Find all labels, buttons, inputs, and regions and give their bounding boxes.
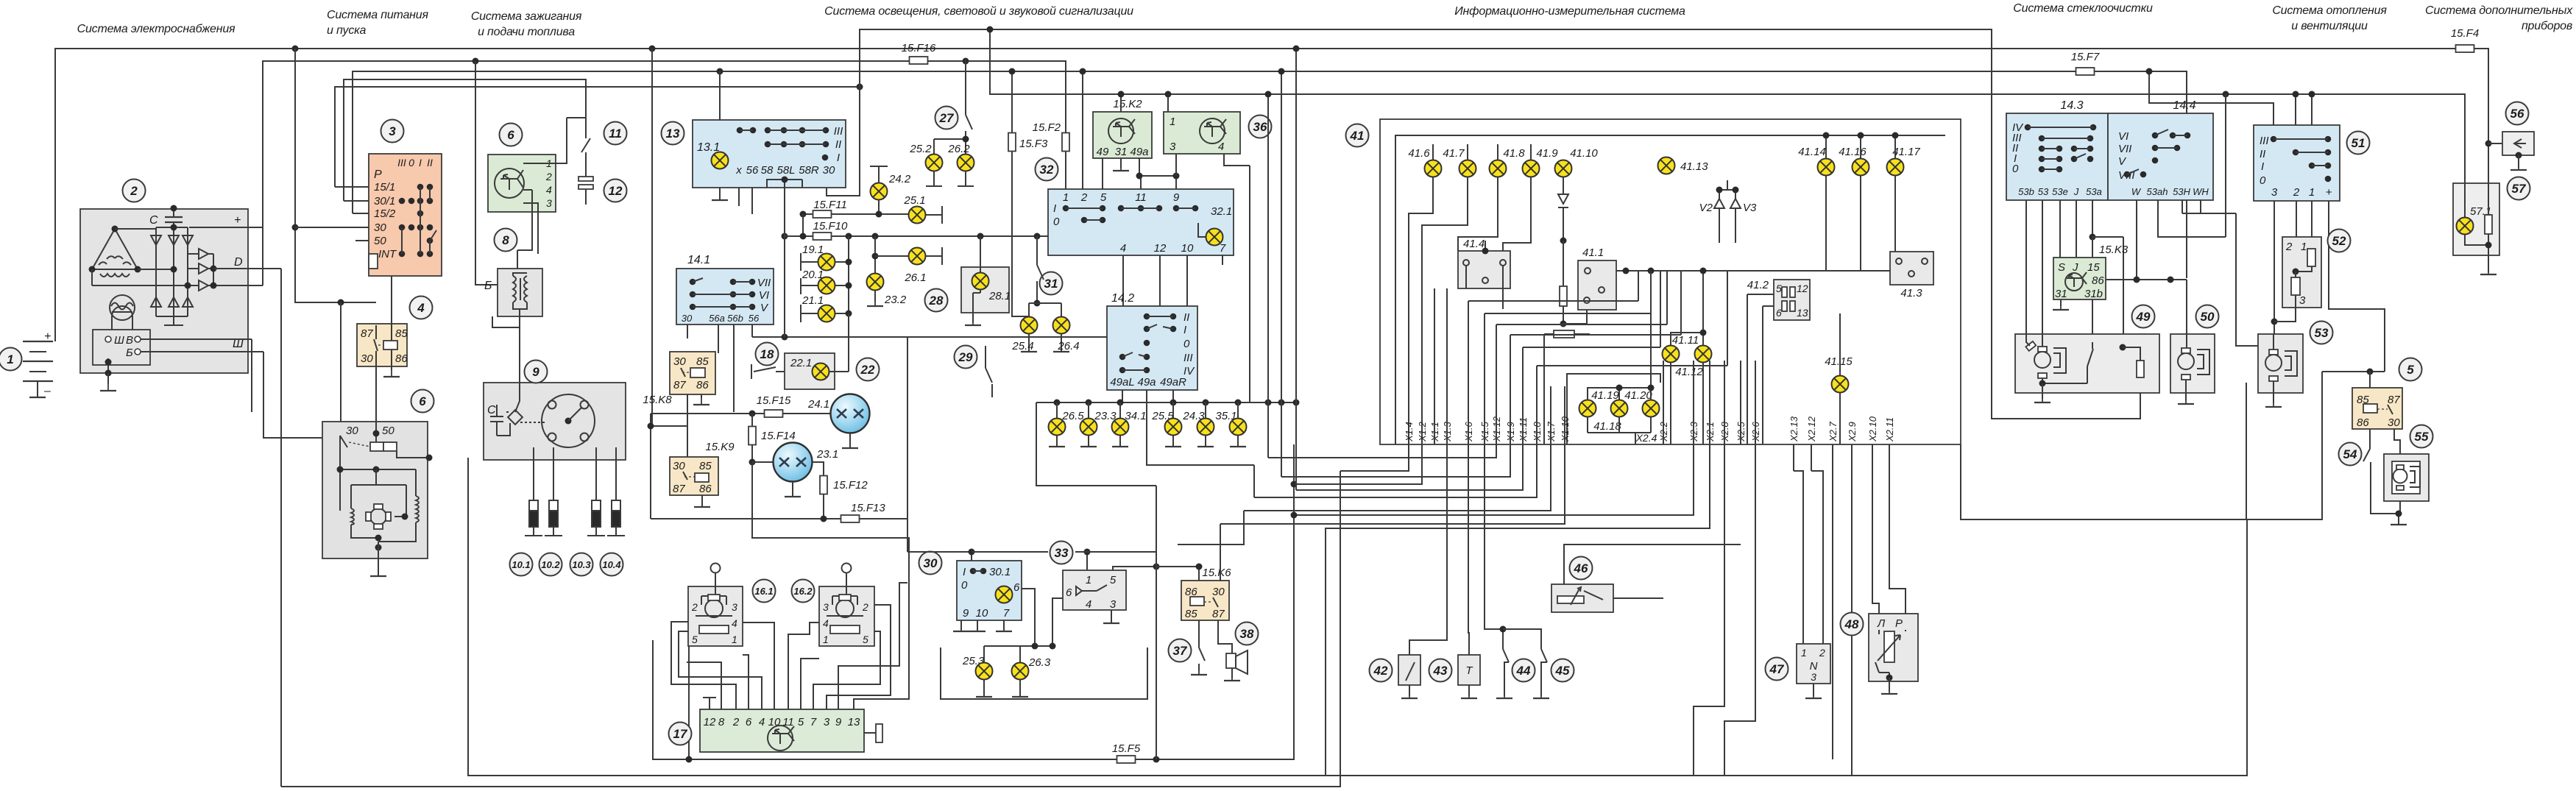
interior light block 30: [957, 561, 1022, 620]
wire bus H5 y118: [335, 87, 860, 187]
svg-text:56b: 56b: [727, 313, 743, 324]
svg-text:30: 30: [682, 313, 693, 324]
light switch block 13: [693, 120, 846, 188]
svg-text:I: I: [837, 152, 840, 164]
svg-text:53e: 53e: [2052, 186, 2068, 197]
svg-text:56: 56: [746, 164, 759, 177]
svg-text:3: 3: [824, 716, 830, 728]
fuse 15.F4: [2456, 45, 2474, 52]
svg-text:10.1: 10.1: [512, 559, 530, 570]
svg-text:41.19: 41.19: [1591, 389, 1619, 402]
svg-text:X2.13: X2.13: [1788, 416, 1800, 442]
svg-text:87: 87: [673, 483, 685, 495]
svg-text:25.1: 25.1: [903, 194, 925, 207]
svg-text:30: 30: [823, 164, 835, 177]
ignition coil 8: [498, 269, 542, 316]
relay 15.K9: [670, 457, 718, 495]
dimmer block 17: [700, 709, 864, 752]
svg-text:2: 2: [862, 601, 868, 613]
diode under 41.10: [1558, 177, 1568, 241]
svg-text:приборов: приборов: [2522, 20, 2572, 32]
svg-text:6: 6: [507, 128, 514, 142]
svg-text:12: 12: [1797, 283, 1808, 294]
svg-text:x: x: [735, 164, 742, 177]
wire bus H3 y97: [353, 71, 2187, 278]
block 41.3: [1890, 252, 1933, 285]
svg-text:29: 29: [958, 350, 973, 364]
dimmer rheostat 48: [1869, 614, 1918, 681]
svg-text:15/1: 15/1: [374, 181, 395, 194]
svg-text:1: 1: [1801, 647, 1807, 659]
wiper relay 15.K3: [2053, 258, 2106, 299]
svg-text:26.5: 26.5: [1061, 410, 1084, 422]
svg-text:49aL: 49aL: [1110, 376, 1134, 389]
svg-text:1: 1: [1170, 116, 1175, 128]
wire bus H6 y128: [990, 29, 2465, 183]
svg-text:14.4: 14.4: [2173, 99, 2195, 112]
svg-text:0: 0: [1053, 216, 1060, 228]
switches 44 45: [1512, 659, 1535, 682]
block 41.2: [1774, 280, 1810, 320]
svg-text:31b: 31b: [2084, 288, 2103, 300]
turn relay block 14.2: [1107, 306, 1197, 390]
svg-text:50: 50: [382, 425, 394, 437]
svg-text:38: 38: [1240, 627, 1254, 641]
ignition module block (circle 6 label): [488, 155, 556, 212]
svg-text:V3: V3: [1743, 202, 1757, 214]
svg-text:WH: WH: [2193, 186, 2209, 197]
svg-text:16.1: 16.1: [754, 586, 773, 597]
svg-text:30/1: 30/1: [374, 195, 395, 207]
washer switch block 14.4: [2108, 113, 2213, 200]
svg-text:6: 6: [1013, 581, 1020, 594]
svg-text:56: 56: [749, 313, 760, 324]
svg-text:6: 6: [1776, 307, 1782, 319]
svg-text:41.16: 41.16: [1839, 146, 1866, 158]
svg-text:28: 28: [929, 294, 944, 308]
svg-text:41: 41: [1350, 129, 1365, 143]
wiper motor block 49: [2015, 334, 2159, 393]
wire vert 401 to ign.switch 30 and relay 4: [295, 49, 376, 302]
svg-text:24.1: 24.1: [807, 398, 829, 411]
svg-text:13: 13: [848, 716, 860, 728]
svg-text:30: 30: [346, 425, 358, 437]
svg-text:II: II: [1183, 311, 1189, 324]
svg-text:Ш: Ш: [114, 334, 124, 347]
svg-text:56: 56: [2510, 107, 2524, 121]
stator delta winding: [92, 229, 138, 277]
svg-text:86: 86: [2092, 274, 2104, 287]
svg-text:P: P: [374, 169, 382, 181]
svg-text:11: 11: [1135, 191, 1147, 204]
regulator wires out: [108, 339, 248, 373]
circle 1: [0, 348, 22, 371]
X1 connector labels: [1404, 416, 1895, 442]
svg-text:41.6: 41.6: [1408, 147, 1430, 160]
svg-text:0: 0: [2012, 163, 2019, 175]
svg-text:30: 30: [673, 355, 686, 368]
svg-text:и пуска: и пуска: [327, 24, 367, 37]
marker lamps 19.1 20.1 21.1: [848, 236, 849, 313]
svg-text:3: 3: [2299, 294, 2306, 307]
bottom bus yB3 1072: [281, 471, 1340, 787]
svg-text:26.4: 26.4: [1057, 340, 1079, 352]
svg-text:53H: 53H: [2173, 186, 2190, 197]
svg-text:X1.2: X1.2: [1417, 421, 1428, 442]
svg-text:42: 42: [1373, 664, 1388, 678]
svg-text:I: I: [963, 566, 966, 578]
generator block 2: [80, 209, 248, 373]
staircase harness under lamps: [1409, 177, 1433, 444]
svg-text:55: 55: [2415, 430, 2429, 444]
svg-text:Система питания: Система питания: [327, 9, 428, 21]
wires 16.x to 17: [703, 698, 716, 709]
svg-text:49a: 49a: [1130, 146, 1148, 158]
svg-text:51: 51: [2352, 136, 2366, 150]
diode bridge: [92, 227, 263, 325]
relay 15.K2: [1093, 112, 1152, 158]
svg-text:32.1: 32.1: [1211, 205, 1232, 218]
svg-text:9: 9: [963, 607, 969, 620]
svg-text:6: 6: [419, 394, 426, 408]
fuse 15.F16: [910, 57, 928, 64]
svg-text:3: 3: [1170, 141, 1176, 153]
svg-text:15.F15: 15.F15: [757, 394, 791, 407]
svg-text:15.F12: 15.F12: [833, 479, 868, 492]
svg-text:1: 1: [732, 634, 737, 645]
svg-text:43: 43: [1433, 664, 1448, 678]
svg-text:41.8: 41.8: [1503, 147, 1525, 160]
svg-text:15.F7: 15.F7: [2071, 51, 2100, 63]
svg-text:57: 57: [2512, 182, 2527, 196]
relay 4: [357, 324, 407, 366]
headlight 23.1: [752, 461, 773, 463]
svg-text:0: 0: [408, 157, 414, 169]
svg-text:23.3: 23.3: [1094, 410, 1117, 422]
svg-text:VI: VI: [759, 289, 769, 302]
bottom bus yB1 1032 with fuse 15.F5: [653, 640, 1117, 759]
svg-text:41.18: 41.18: [1593, 420, 1621, 433]
svg-text:0: 0: [2260, 174, 2266, 187]
svg-text:30: 30: [924, 556, 938, 570]
wire H1 tail to aux: [2474, 49, 2488, 183]
switch 11 and capacitor 12: [604, 122, 627, 145]
svg-text:15.K6: 15.K6: [1202, 567, 1231, 579]
wire bus H0 y40: [860, 29, 2140, 419]
svg-text:15: 15: [2087, 261, 2100, 274]
block 41.1: [1578, 260, 1616, 310]
svg-text:III: III: [1183, 352, 1193, 364]
svg-text:1: 1: [7, 352, 13, 366]
svg-text:85: 85: [699, 460, 712, 472]
svg-text:–: –: [43, 385, 51, 397]
svg-text:13: 13: [1797, 307, 1808, 319]
circle 57: [2508, 177, 2530, 200]
svg-text:3: 3: [1110, 598, 1117, 611]
svg-text:4: 4: [546, 184, 552, 196]
svg-text:10.4: 10.4: [602, 559, 621, 570]
svg-text:0: 0: [961, 579, 968, 592]
svg-text:53a: 53a: [2086, 186, 2102, 197]
svg-text:1: 1: [2301, 241, 2307, 253]
svg-text:I: I: [1053, 202, 1056, 215]
svg-text:4: 4: [1218, 141, 1224, 153]
svg-text:2: 2: [2293, 186, 2300, 199]
svg-text:41.15: 41.15: [1825, 355, 1853, 368]
svg-text:53: 53: [2038, 186, 2049, 197]
svg-text:18: 18: [760, 347, 774, 361]
svg-text:24.2: 24.2: [888, 173, 911, 185]
svg-text:49aR: 49aR: [1160, 376, 1186, 389]
svg-text:87: 87: [361, 327, 373, 340]
svg-text:41.12: 41.12: [1675, 366, 1703, 378]
svg-text:W: W: [2131, 186, 2142, 197]
svg-text:41.2: 41.2: [1747, 279, 1769, 291]
svg-text:13: 13: [666, 127, 680, 141]
svg-text:34.1: 34.1: [1125, 410, 1146, 422]
lamp 26.1 and 23.2: [874, 236, 876, 273]
svg-text:8: 8: [718, 716, 725, 728]
svg-text:4: 4: [732, 617, 737, 629]
svg-text:X2.12: X2.12: [1806, 416, 1817, 442]
svg-text:4: 4: [759, 716, 765, 728]
svg-text:3: 3: [546, 197, 552, 209]
svg-text:15.K2: 15.K2: [1113, 98, 1142, 110]
svg-text:Б: Б: [126, 347, 133, 359]
wire vert 886 to relay K9: [652, 49, 687, 457]
bus y368: [1616, 270, 1890, 272]
capacitor C in 2: [149, 205, 183, 232]
wire vert 978 lamp13.1 feed: [719, 71, 721, 120]
svg-text:+: +: [234, 214, 241, 227]
svg-text:53ah: 53ah: [2147, 186, 2168, 197]
X2 harness routes: [1294, 444, 1694, 515]
lamp 25.1: [909, 207, 926, 224]
svg-text:15.F4: 15.F4: [2451, 27, 2479, 40]
svg-text:49: 49: [2136, 310, 2151, 324]
svg-text:J: J: [2072, 261, 2078, 274]
turn lamps bus: [1036, 402, 1296, 403]
svg-text:15.F14: 15.F14: [761, 430, 796, 442]
svg-text:+: +: [2326, 186, 2332, 199]
svg-text:58: 58: [761, 164, 774, 177]
svg-text:41.7: 41.7: [1443, 147, 1465, 160]
svg-text:58L: 58L: [776, 164, 795, 177]
svg-text:85: 85: [696, 355, 709, 368]
svg-text:10: 10: [976, 607, 988, 620]
washer motor block 50: [2170, 334, 2215, 393]
svg-text:2: 2: [691, 601, 698, 613]
circle 2: [123, 180, 146, 202]
svg-text:41.4: 41.4: [1463, 238, 1485, 250]
instrument cluster box 41: [1380, 119, 1961, 444]
svg-text:56a: 56a: [709, 313, 725, 324]
svg-text:5: 5: [798, 716, 804, 728]
svg-text:86: 86: [696, 379, 709, 391]
svg-text:33: 33: [1055, 546, 1069, 560]
X1 column stubs: [1434, 288, 1447, 444]
svg-text:8: 8: [502, 233, 509, 247]
svg-text:3: 3: [823, 601, 829, 613]
harness below box 41: [1268, 94, 1496, 458]
heater switch block 51: [2254, 125, 2340, 201]
svg-text:3: 3: [389, 124, 396, 138]
svg-text:86: 86: [699, 483, 712, 495]
svg-text:4: 4: [417, 301, 425, 315]
svg-text:Л: Л: [1877, 617, 1886, 630]
junction dots on buses: [292, 46, 299, 52]
svg-text:I: I: [419, 157, 422, 169]
wire bus H4 y108: [344, 79, 586, 201]
svg-text:86: 86: [395, 352, 408, 365]
fuse 15.F11 row: [803, 213, 908, 215]
svg-text:Система отопления: Система отопления: [2272, 4, 2387, 17]
lamp 24.2: [870, 166, 888, 183]
svg-text:3: 3: [2271, 186, 2278, 199]
cigarette lighter block 57.1: [2453, 183, 2499, 255]
bottom bus yB2 1054: [468, 458, 2247, 776]
svg-text:1: 1: [1063, 191, 1069, 204]
svg-text:37: 37: [1173, 644, 1188, 658]
gen outputs to right: [213, 269, 281, 352]
svg-text:9: 9: [835, 716, 842, 728]
svg-text:1: 1: [2309, 186, 2315, 199]
spark plug wires: [534, 447, 616, 500]
svg-text:36: 36: [1253, 120, 1267, 134]
starter motor: [370, 508, 386, 525]
bus y705 with fuse 15.F13: [651, 518, 841, 519]
svg-text:31: 31: [2055, 288, 2067, 300]
svg-text:41.11: 41.11: [1672, 334, 1699, 347]
svg-text:15.F3: 15.F3: [1019, 138, 1048, 150]
lamp 41.13: [1658, 157, 1675, 174]
svg-text:2: 2: [2285, 241, 2293, 253]
svg-text:X2.7: X2.7: [1827, 421, 1839, 442]
svg-text:15.F11: 15.F11: [813, 199, 847, 211]
svg-text:50: 50: [374, 235, 386, 247]
compressor switch 54: [2339, 443, 2362, 466]
svg-text:VI: VI: [2118, 130, 2129, 143]
svg-text:87: 87: [1212, 608, 1225, 620]
svg-text:86: 86: [2357, 416, 2369, 429]
svg-text:25.2: 25.2: [909, 143, 932, 155]
fuse 15.F7: [2076, 68, 2095, 75]
horn 38: [1236, 622, 1259, 645]
svg-text:52: 52: [2332, 234, 2346, 248]
svg-text:87: 87: [673, 379, 686, 391]
svg-text:16.2: 16.2: [793, 586, 813, 597]
svg-text:C: C: [149, 214, 158, 227]
svg-text:53: 53: [2315, 326, 2329, 340]
svg-text:2: 2: [130, 184, 138, 198]
svg-text:VII: VII: [2118, 143, 2131, 155]
svg-text:9: 9: [532, 365, 539, 379]
svg-text:85: 85: [1185, 608, 1197, 620]
svg-text:Р: Р: [1895, 617, 1903, 630]
svg-text:30: 30: [1212, 586, 1225, 598]
svg-text:50: 50: [2201, 310, 2215, 324]
rotor field winding: [110, 295, 135, 320]
svg-text:10.3: 10.3: [572, 559, 591, 570]
svg-text:41.13: 41.13: [1680, 160, 1708, 173]
hazard switch block 32: [1048, 189, 1234, 255]
svg-text:30: 30: [361, 352, 373, 365]
svg-text:41.14: 41.14: [1798, 146, 1826, 158]
svg-text:5: 5: [1110, 574, 1117, 586]
svg-text:Система электроснабжения: Система электроснабжения: [77, 23, 236, 35]
AC relay 5: [2322, 371, 2385, 372]
svg-text:2: 2: [732, 716, 740, 728]
resistor block 52: [2282, 237, 2321, 308]
svg-text:Информационно-измерительная си: Информационно-измерительная система: [1454, 5, 1685, 18]
wire bus H2 y83: [263, 61, 1066, 285]
svg-text:C: C: [487, 404, 496, 416]
battery 1: [23, 330, 53, 397]
svg-text:15.F2: 15.F2: [1033, 121, 1061, 134]
svg-text:27: 27: [939, 111, 955, 125]
spark plugs 10.1-10.4: [525, 500, 625, 536]
sensor 42: [1398, 655, 1420, 685]
circles 28 29: [925, 289, 948, 312]
switch 27: [935, 107, 958, 130]
svg-text:S: S: [2058, 261, 2065, 274]
svg-text:7: 7: [810, 716, 817, 728]
svg-text:5: 5: [1776, 283, 1782, 294]
svg-text:2: 2: [545, 171, 552, 182]
svg-text:41.10: 41.10: [1570, 147, 1598, 160]
regulator box: [93, 330, 150, 365]
ign switch left stubs: [335, 187, 369, 241]
svg-text:J: J: [2073, 186, 2079, 197]
svg-text:12: 12: [704, 716, 716, 728]
block 41.4: [1458, 251, 1510, 288]
svg-text:5: 5: [1100, 191, 1107, 204]
fuel gauge unit 46: [1551, 584, 1613, 612]
svg-text:41.3: 41.3: [1900, 287, 1922, 299]
resistors near 41.1: [1560, 286, 1567, 306]
svg-text:41.9: 41.9: [1536, 147, 1558, 160]
svg-text:Система освещения, световой и: Система освещения, световой и звуковой с…: [824, 5, 1133, 18]
svg-text:28.1: 28.1: [988, 290, 1011, 302]
svg-text:26.1: 26.1: [904, 272, 926, 284]
wires to sensors 42-45: [1409, 444, 1447, 655]
svg-text:10.2: 10.2: [541, 559, 560, 570]
svg-text:5: 5: [863, 634, 868, 645]
svg-text:49: 49: [1097, 146, 1109, 158]
module wires: [517, 118, 567, 254]
svg-text:14.3: 14.3: [2060, 99, 2083, 112]
svg-text:6: 6: [1066, 586, 1072, 599]
svg-text:48: 48: [1844, 617, 1859, 631]
svg-text:53b: 53b: [2018, 186, 2034, 197]
svg-text:4: 4: [1120, 242, 1126, 255]
wire y706 to compressor: [1961, 372, 2322, 519]
svg-text:41.1: 41.1: [1582, 246, 1604, 259]
horn switch 37: [1169, 639, 1192, 662]
clock block 56: [2506, 102, 2529, 125]
svg-text:12: 12: [609, 184, 623, 198]
svg-text:54: 54: [2343, 447, 2357, 461]
svg-text:10: 10: [1181, 242, 1194, 255]
wiper pins down: [2026, 200, 2092, 334]
svg-text:21.1: 21.1: [802, 294, 824, 307]
svg-text:15.F10: 15.F10: [813, 220, 848, 233]
svg-text:30: 30: [374, 221, 386, 234]
svg-text:30.1: 30.1: [989, 566, 1011, 578]
svg-text:41.17: 41.17: [1892, 146, 1920, 158]
svg-text:85: 85: [395, 327, 408, 340]
svg-text:Б: Б: [484, 280, 492, 292]
